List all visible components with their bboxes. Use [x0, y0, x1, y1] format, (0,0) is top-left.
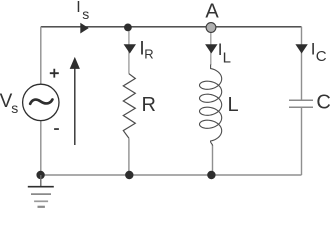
wire: left vertical upper (source top lead): [40, 27, 42, 85]
plus sign: [50, 69, 59, 78]
svg-text:A: A: [205, 1, 219, 23]
node A dot: [206, 23, 216, 33]
svg-text:R: R: [144, 47, 153, 62]
svg-text:s: s: [11, 100, 18, 116]
junction dot bottom (L branch): [207, 171, 215, 179]
wire: capacitor branch lower lead: [301, 107, 303, 175]
svg-text:L: L: [228, 94, 239, 116]
svg-text:s: s: [82, 6, 89, 22]
arrowhead I_C: [295, 44, 307, 53]
ground stub: [40, 175, 42, 187]
arrowhead I_L: [205, 44, 217, 53]
wire: bottom rail: [41, 174, 302, 176]
svg-text:I: I: [76, 0, 80, 16]
capacitor C top plate: [289, 99, 313, 101]
wire: left vertical lower (source bottom lead): [40, 121, 42, 176]
wire: capacitor branch upper lead: [301, 27, 303, 101]
capacitor C bottom plate: [289, 106, 313, 108]
wire: top rail from source to capacitor branch: [41, 26, 302, 28]
junction dot bottom (R branch): [125, 171, 133, 179]
svg-text:R: R: [142, 94, 156, 116]
arrowhead I_R: [124, 44, 136, 53]
junction dot bottom left (ground): [36, 171, 44, 179]
ground line 4: [38, 206, 45, 208]
ground line 3: [34, 200, 48, 202]
voltage source sine symbol: [30, 100, 52, 104]
inductor L coil: [200, 65, 222, 146]
svg-text:L: L: [223, 49, 231, 66]
ground line 1: [28, 186, 54, 188]
ground line 2: [31, 193, 51, 195]
voltage source V_s circle: [23, 84, 59, 120]
minus sign: [54, 128, 59, 130]
arrowhead I_s on top wire: [80, 23, 88, 34]
wire: resistor branch upper lead: [128, 27, 130, 74]
junction dot top (R branch): [124, 24, 132, 32]
source current direction arrow (vertical): [74, 69, 76, 146]
wire: resistor branch lower lead: [128, 138, 130, 175]
wire: inductor branch upper lead: [210, 27, 212, 65]
wire: inductor branch lower lead: [212, 145, 214, 175]
resistor R zigzag: [123, 74, 135, 139]
svg-text:C: C: [316, 92, 330, 114]
svg-text:C: C: [316, 48, 327, 65]
